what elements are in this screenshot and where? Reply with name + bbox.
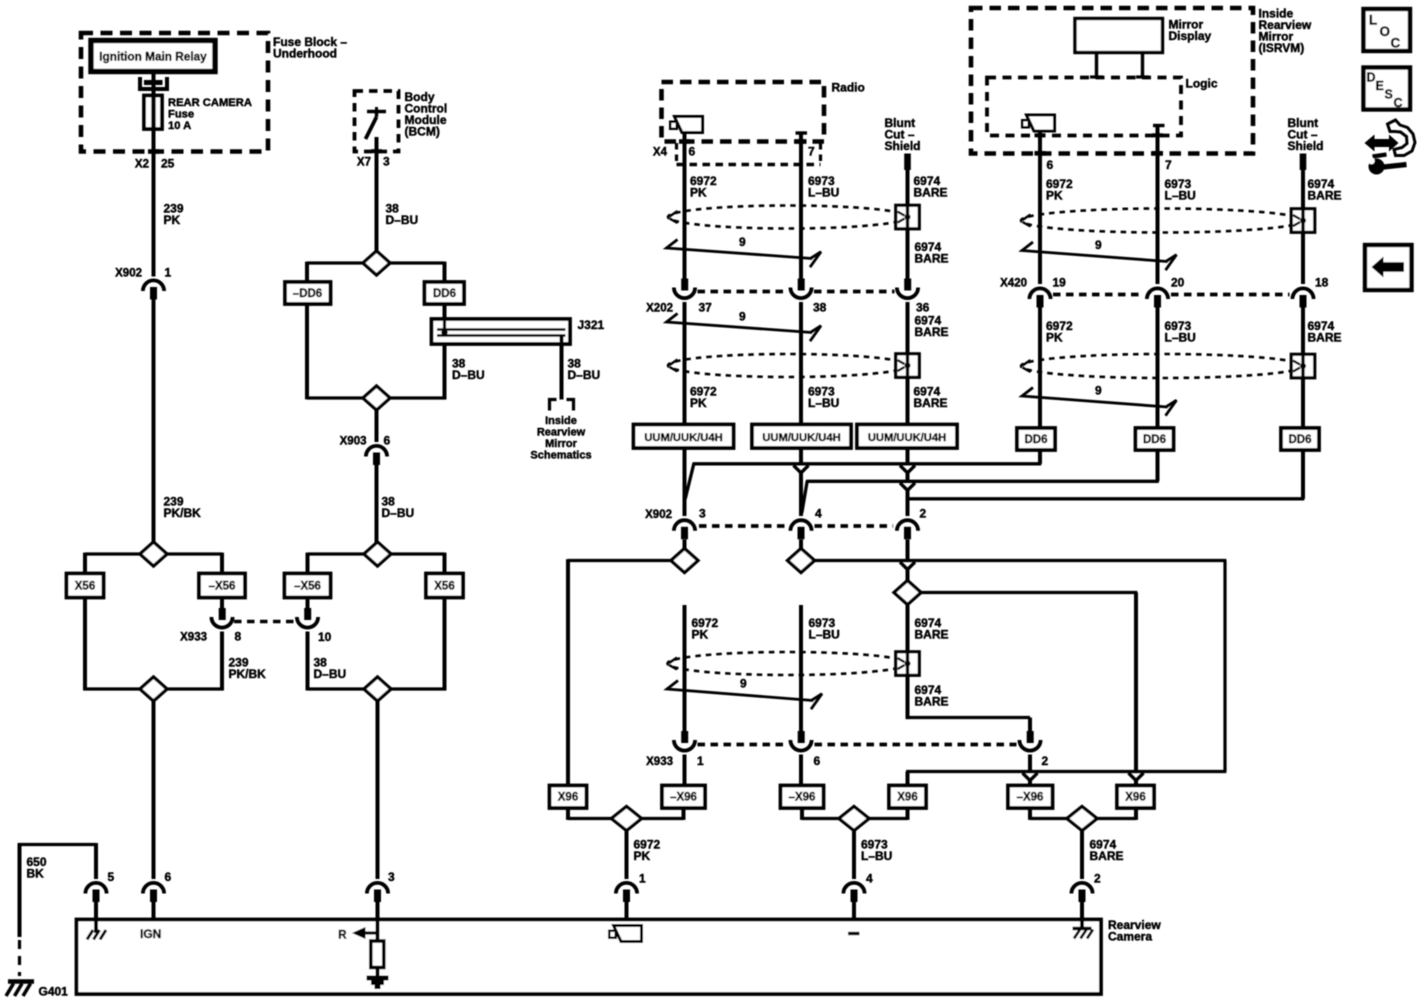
fuse block - underhood (dashed box) xyxy=(81,33,268,152)
relay K: Ignition Main Relay (bold box) xyxy=(91,41,215,72)
wire 6973 L-BU radio pin 7 xyxy=(799,135,803,280)
svg-text:C: C xyxy=(1394,96,1403,110)
dashed connector line X202 xyxy=(698,290,789,294)
connector X420 pin 18 xyxy=(1292,288,1313,299)
module Logic (dashed box) xyxy=(987,78,1181,136)
switch symbol inside BCM xyxy=(367,110,386,114)
connector X903 pin 6 xyxy=(366,446,387,457)
svg-text:(ISRVM): (ISRVM) xyxy=(1259,41,1305,55)
svg-text:PK: PK xyxy=(690,396,707,410)
connector box -X96 (PK) xyxy=(662,786,705,809)
camera display icon in radio xyxy=(675,117,703,133)
shield ellipse (middle) xyxy=(668,652,908,675)
wire into camera (video-) xyxy=(852,902,856,920)
shield ellipse (ISRVM upper) xyxy=(1021,209,1303,233)
svg-text:Rearview: Rearview xyxy=(537,427,586,439)
svg-text:L–BU: L–BU xyxy=(861,849,892,863)
camera display icon in logic xyxy=(1027,115,1055,131)
svg-text:D–BU: D–BU xyxy=(314,667,347,681)
wire relay to fuse xyxy=(152,72,156,97)
wire X902-3 to diamond xyxy=(683,540,687,549)
wire DD6-18 to 6974 BARE wire xyxy=(1301,450,1305,499)
svg-text:Radio: Radio xyxy=(832,81,865,95)
wire down to camera pin 3 xyxy=(376,702,380,880)
shield termination box (ISRVM lower) xyxy=(1291,354,1315,378)
icon box DESC xyxy=(1364,68,1411,110)
wire below X933-8 to lower diamond xyxy=(220,632,224,691)
svg-text:X902: X902 xyxy=(115,268,142,280)
wire L-BU diamond right arm (long route) xyxy=(815,559,1227,562)
blunt cut stub (ISRVM) xyxy=(1300,154,1307,171)
minus terminal inside camera xyxy=(848,932,860,935)
wire J321 left leg down xyxy=(443,344,447,400)
wire ISRVM pin 7 (6973 L-BU) xyxy=(1156,127,1160,284)
svg-text:6: 6 xyxy=(1047,158,1054,172)
tick at ISRVM exit pin 6 xyxy=(1035,151,1046,156)
svg-text:9: 9 xyxy=(1095,238,1102,252)
wire 6974 BARE shield drain (ISRVM) xyxy=(1301,170,1305,284)
svg-text:Logic: Logic xyxy=(1186,77,1218,91)
wire 38 D-BU down to diamond xyxy=(375,465,379,543)
shield termination box (ISRVM upper) xyxy=(1291,209,1315,233)
connector box X56 (right) xyxy=(426,574,463,598)
hop of 6974 wire over L-BU line xyxy=(900,483,915,490)
dashed connector line X902 xyxy=(699,524,788,528)
connector box DD6 xyxy=(425,282,465,304)
splice diamond (239 PK/BK split) xyxy=(140,542,167,566)
svg-text:7: 7 xyxy=(1165,158,1172,172)
ground G401 symbol xyxy=(8,979,34,984)
svg-text:2: 2 xyxy=(920,507,927,521)
splice diamond (38 D-BU merge 2) xyxy=(364,677,391,701)
svg-text:R: R xyxy=(338,930,347,942)
svg-text:1: 1 xyxy=(165,266,172,280)
ground hatch at pin 5 inside camera xyxy=(94,920,98,934)
svg-text:9: 9 xyxy=(740,677,747,691)
hop of 6974 wire over PK line xyxy=(900,465,915,472)
splice diamond 6972 PK merge xyxy=(612,807,642,831)
connector X902 pin 3 xyxy=(674,520,695,531)
minus terminal in logic xyxy=(1153,124,1165,127)
wires X96 pair to PK merge diamond xyxy=(566,808,570,820)
module: Inside Rearview Mirror ISRVM (dashed box) xyxy=(971,8,1253,154)
connector camera pin 5 xyxy=(85,883,106,894)
connector X420 pin 20 xyxy=(1147,288,1168,299)
dashed wire to G401 xyxy=(18,940,21,976)
svg-text:DD6: DD6 xyxy=(1024,434,1047,446)
off-page connector to mirror schematics xyxy=(550,400,574,411)
wire 6972 PK to UUM xyxy=(683,302,687,425)
svg-text:1: 1 xyxy=(697,754,704,768)
wire DD6 to splice pack J321 xyxy=(443,304,447,319)
splice diamond (38 D-BU merge) xyxy=(363,386,390,410)
wire through fuse xyxy=(151,96,155,130)
connector X933 pin 8 xyxy=(219,608,226,620)
wire ISRVM pin 6 (6972 PK) xyxy=(1038,131,1042,284)
svg-text:L–BU: L–BU xyxy=(1165,189,1196,203)
wire 6974 BARE to UUM xyxy=(906,302,910,425)
resistor inside camera xyxy=(371,941,384,968)
wire PK diamond left arm to X96 branch xyxy=(568,559,671,562)
svg-text:D: D xyxy=(1367,71,1376,85)
hop of BARE conn wire over long route xyxy=(1023,773,1038,780)
hop of BARE branch over long route xyxy=(1129,773,1144,780)
svg-text:Underhood: Underhood xyxy=(273,47,337,61)
svg-text:D–BU: D–BU xyxy=(382,506,415,520)
svg-text:18: 18 xyxy=(1315,276,1329,290)
connector box X56 (left) xyxy=(67,574,104,598)
svg-text:38: 38 xyxy=(813,301,827,315)
svg-text:PK: PK xyxy=(634,849,651,863)
wire into camera (video+) xyxy=(625,902,629,920)
svg-text:DD6: DD6 xyxy=(1288,434,1311,446)
wires X96 pair to L-BU merge diamond xyxy=(800,808,804,820)
wire into camera box (R) xyxy=(376,902,380,920)
connector box -DD6 xyxy=(285,282,331,304)
shield termination box (middle) xyxy=(896,652,920,676)
svg-text:–X56: –X56 xyxy=(209,581,236,593)
wire ground branch to camera pin 5 xyxy=(94,843,98,879)
connector X202 pin 37 xyxy=(681,279,688,291)
twisted pair symbol 9 (radio upper) xyxy=(667,240,813,259)
svg-text:BARE: BARE xyxy=(915,628,949,642)
svg-text:X7: X7 xyxy=(357,157,371,169)
svg-text:PK/BK: PK/BK xyxy=(229,667,267,681)
svg-text:9: 9 xyxy=(739,310,746,324)
svg-text:6: 6 xyxy=(165,870,172,884)
svg-text:X56: X56 xyxy=(75,581,95,593)
svg-text:BARE: BARE xyxy=(1308,331,1342,345)
splice pack J321 xyxy=(432,319,571,344)
connector X202 pin 38 xyxy=(798,279,805,291)
shield ground symbol inside camera xyxy=(1080,920,1084,929)
svg-text:X420: X420 xyxy=(1000,278,1027,290)
connector X902 pin 2 xyxy=(897,520,918,531)
twisted pair symbol 9 (middle) xyxy=(667,681,813,701)
svg-text:X202: X202 xyxy=(646,303,673,315)
svg-text:9: 9 xyxy=(739,235,746,249)
svg-text:–X96: –X96 xyxy=(670,792,697,804)
wire -X56 to X933-10 xyxy=(306,598,310,609)
component Mirror Display box xyxy=(1075,19,1163,53)
connector camera pin 3 xyxy=(367,883,388,894)
wire down to camera pin 6 xyxy=(152,702,156,880)
wire into camera box (IGN) xyxy=(152,902,156,920)
connector camera pin 6 xyxy=(143,883,164,894)
svg-text:DD6: DD6 xyxy=(1143,434,1166,446)
wire UUM 38 down to X902 pin 4 (hop at PK line) xyxy=(799,448,803,464)
svg-text:6: 6 xyxy=(814,754,821,768)
fuse holder clip xyxy=(140,77,167,89)
wire J321 leg to merge diamond xyxy=(391,396,447,399)
svg-text:X902: X902 xyxy=(645,509,672,521)
svg-text:2: 2 xyxy=(1042,754,1049,768)
connector X933 pin 2 xyxy=(1027,731,1034,743)
wire X902-2 down (hop at L-BU arm) xyxy=(906,540,910,561)
splice diamond 6973 L-BU merge xyxy=(839,807,869,831)
twisted pair symbol 9 (ISRVM upper) xyxy=(1022,242,1168,262)
connector X202 pin 36 xyxy=(904,279,911,291)
connector camera pin 2 xyxy=(1071,883,1092,894)
wire DD6-19 to X902-3 (6972 PK link) xyxy=(1038,450,1042,464)
tick at ISRVM exit pin 7 xyxy=(1152,151,1163,156)
svg-text:37: 37 xyxy=(699,301,713,315)
svg-text:DD6: DD6 xyxy=(433,288,456,300)
svg-text:BARE: BARE xyxy=(915,325,949,339)
icon box back arrow xyxy=(1365,245,1412,290)
svg-text:Ignition Main Relay: Ignition Main Relay xyxy=(99,50,207,64)
blunt cut stub (radio) xyxy=(904,154,911,171)
wire X56 down to lower diamond xyxy=(83,598,87,691)
wire X56 down to lower diamond xyxy=(443,598,447,691)
svg-text:X56: X56 xyxy=(434,581,454,593)
wire UUM 36 down to X902 pin 2 (hops) xyxy=(906,448,910,464)
splice diamond 6974 BARE merge xyxy=(1067,807,1097,831)
connector camera pin 4 xyxy=(843,883,864,894)
svg-text:9: 9 xyxy=(1095,384,1102,398)
svg-text:3: 3 xyxy=(388,870,395,884)
svg-text:L–BU: L–BU xyxy=(809,628,840,642)
splice diamond 6974 BARE xyxy=(894,581,921,605)
svg-text:Inside: Inside xyxy=(545,415,577,427)
connector X420 pin 19 xyxy=(1029,288,1050,299)
module: Body Control Module BCM (dashed box) xyxy=(355,91,399,152)
svg-text:L: L xyxy=(1369,13,1377,28)
tick at fuse block exit xyxy=(148,149,159,154)
wire diamond left arm to X56 branch xyxy=(85,552,140,555)
svg-text:BARE: BARE xyxy=(915,695,949,709)
svg-text:–X56: –X56 xyxy=(294,581,321,593)
svg-text:PK: PK xyxy=(164,213,181,227)
wire -DD6 down to merge diamond xyxy=(305,304,309,399)
splice diamond 6973 L-BU xyxy=(788,549,815,573)
wire J321 right leg down xyxy=(560,336,564,400)
svg-text:Display: Display xyxy=(1169,29,1212,43)
wire 6972 PK to X933 pin 1 xyxy=(683,605,687,731)
wire -X56 to connector X933-8 xyxy=(220,598,224,609)
connector box X96 (PK branch) xyxy=(550,786,587,809)
svg-text:BARE: BARE xyxy=(1090,849,1124,863)
wire fuse to X2 pin 25 xyxy=(152,129,156,277)
wire 650 BK horizontal xyxy=(18,843,96,846)
svg-text:S: S xyxy=(1385,88,1393,102)
wire diamond right arm to X56 xyxy=(391,552,445,555)
svg-text:D–BU: D–BU xyxy=(568,368,601,382)
svg-text:8: 8 xyxy=(235,630,242,644)
svg-text:X4: X4 xyxy=(653,147,668,159)
svg-text:D–BU: D–BU xyxy=(386,213,419,227)
wire L-BU to camera pin 4 xyxy=(852,831,856,880)
splice diamond (38 D-BU split 2) xyxy=(364,542,391,566)
option box UUM/UUK/U4H pin 38 xyxy=(752,425,851,449)
wire diamond left arm to -X56 xyxy=(308,552,365,555)
wire diamond right arm to DD6 xyxy=(390,261,445,264)
wire below X933-10 to lower diamond xyxy=(306,632,310,691)
wire X933-1 to -X96 xyxy=(683,755,687,786)
wire 6973 L-BU to X933 pin 6 xyxy=(799,605,803,731)
connector box -X56 (left) xyxy=(199,574,245,598)
svg-text:Shield: Shield xyxy=(1288,139,1324,153)
connector box X96 (BARE branch) xyxy=(1117,786,1154,809)
svg-text:X903: X903 xyxy=(340,436,367,448)
tick at radio exit pin 6 xyxy=(679,139,690,144)
svg-text:BARE: BARE xyxy=(914,396,948,410)
wire PK to camera pin 1 xyxy=(625,831,629,880)
svg-text:IGN: IGN xyxy=(140,927,161,941)
splice diamond 6972 PK xyxy=(671,549,698,573)
wire X933-6 to -X96 xyxy=(799,755,803,786)
svg-text:BARE: BARE xyxy=(1308,189,1342,203)
svg-text:J321: J321 xyxy=(578,318,605,332)
icon box LOC xyxy=(1364,9,1411,51)
svg-text:G401: G401 xyxy=(39,985,69,998)
svg-text:1: 1 xyxy=(639,872,646,886)
svg-text:BK: BK xyxy=(27,867,45,881)
svg-text:X96: X96 xyxy=(558,792,578,804)
internal ground symbol (stepped) xyxy=(367,976,389,990)
svg-text:L–BU: L–BU xyxy=(1165,331,1196,345)
connector X933 pin 10 xyxy=(304,608,311,620)
svg-text:X96: X96 xyxy=(897,792,917,804)
connector X4 dashed outline xyxy=(675,143,678,165)
svg-text:PK: PK xyxy=(690,186,707,200)
svg-text:PK/BK: PK/BK xyxy=(164,506,202,520)
wire to connector X903 pin 6 xyxy=(375,411,379,443)
shield termination box (radio lower) xyxy=(896,354,920,378)
svg-text:UUM/UUK/U4H: UUM/UUK/U4H xyxy=(868,432,946,444)
wire 6974 BARE from diamond to shield box xyxy=(906,605,910,652)
shield termination box (radio upper) xyxy=(896,205,920,229)
svg-text:10 A: 10 A xyxy=(168,120,191,132)
component box Rearview Camera xyxy=(77,920,1102,995)
svg-text:(BCM): (BCM) xyxy=(405,125,440,139)
hop of 6974 wire over L-BU arm xyxy=(900,562,915,569)
tick at radio exit pin 7 xyxy=(796,139,807,144)
svg-text:Mirror: Mirror xyxy=(545,438,578,450)
svg-text:–DD6: –DD6 xyxy=(293,288,322,300)
wire 6974 BARE to DD6 xyxy=(1301,308,1305,429)
svg-text:–X96: –X96 xyxy=(1017,792,1044,804)
svg-text:36: 36 xyxy=(916,301,930,315)
svg-text:20: 20 xyxy=(1171,276,1185,290)
svg-text:D–BU: D–BU xyxy=(452,368,485,382)
wire UUM 37 down to X902 pin 3 xyxy=(683,448,687,516)
module: Radio (dashed box) xyxy=(662,82,825,142)
wire into camera (shield) xyxy=(1080,902,1084,920)
wires X56 pair to BARE merge diamond xyxy=(1028,808,1032,820)
wire 6973 L-BU to DD6 xyxy=(1156,308,1160,429)
svg-text:UUM/UUK/U4H: UUM/UUK/U4H xyxy=(644,432,722,444)
svg-text:L–BU: L–BU xyxy=(808,186,839,200)
tick at logic exit pin 6 xyxy=(1035,133,1046,137)
connector box X96 (L-BU branch) xyxy=(889,786,926,809)
option box DD6 pin 18 xyxy=(1281,428,1319,450)
svg-text:PK: PK xyxy=(1046,331,1063,345)
wire 6974 BARE to connector 2 xyxy=(906,675,910,719)
fuse F: REAR CAMERA Fuse 10A body xyxy=(144,96,162,130)
wire diamond left arm to -DD6 xyxy=(307,261,363,264)
wire diamond right arm to -X56 branch xyxy=(167,552,222,555)
wire 6973 L-BU to UUM xyxy=(799,302,803,425)
connector X933 pin 1 xyxy=(681,731,688,743)
wire BARE diamond right arm xyxy=(921,591,1137,594)
svg-text:PK: PK xyxy=(692,628,709,642)
option box DD6 pin 20 xyxy=(1136,428,1174,450)
svg-text:BARE: BARE xyxy=(914,186,948,200)
svg-text:REAR CAMERA: REAR CAMERA xyxy=(168,97,252,109)
camera display icon inside camera xyxy=(614,926,642,942)
wire 239 PK/BK down to splice diamond xyxy=(152,300,156,543)
svg-text:UUM/UUK/U4H: UUM/UUK/U4H xyxy=(762,432,840,444)
svg-text:Shield: Shield xyxy=(885,139,921,153)
wire 6972 PK to DD6 xyxy=(1038,308,1042,429)
option box DD6 pin 19 xyxy=(1017,428,1055,450)
wire 6974 BARE shield drain (radio) xyxy=(906,170,910,279)
connector X902 pin 4 xyxy=(790,520,811,531)
svg-text:4: 4 xyxy=(815,507,822,521)
option box UUM/UUK/U4H pin 36 xyxy=(857,425,957,449)
dashed connector line X933 row (left) xyxy=(234,620,296,623)
dashed connector line X420 xyxy=(1053,293,1144,297)
shield ellipse (ISRVM lower) xyxy=(1021,354,1303,378)
wire resistor to internal ground xyxy=(376,968,380,977)
shield ellipse (radio upper) xyxy=(668,206,908,229)
splice diamond (239 PK/BK merge) xyxy=(140,677,167,701)
connector box -X96 (BARE) xyxy=(1008,786,1053,809)
svg-text:Schematics: Schematics xyxy=(530,450,591,462)
wire BARE to camera pin 2 xyxy=(1080,831,1084,880)
connector camera pin 1 xyxy=(616,883,637,894)
svg-text:X2: X2 xyxy=(135,159,149,171)
connector box -X56 (right) xyxy=(285,574,331,598)
svg-text:10: 10 xyxy=(318,630,332,644)
connector X933 pin 6 xyxy=(798,731,805,743)
connector X902 pin 1 xyxy=(143,280,164,291)
twisted pair symbol 9 (ISRVM lower) xyxy=(1022,388,1168,408)
wire BCM X7 pin 3 down xyxy=(375,137,379,251)
wire 6972 PK radio pin 6 xyxy=(683,133,687,280)
icon double arrow with tool xyxy=(1365,135,1399,152)
wire X933-2 to -X56 (hop at long route) xyxy=(1028,755,1032,772)
option box UUM/UUK/U4H pin 37 xyxy=(634,425,734,449)
svg-text:L–BU: L–BU xyxy=(808,396,839,410)
svg-text:19: 19 xyxy=(1053,276,1067,290)
minus terminal in radio xyxy=(796,131,808,134)
svg-text:6: 6 xyxy=(384,434,391,448)
svg-text:3: 3 xyxy=(383,155,390,169)
svg-text:7: 7 xyxy=(808,145,815,159)
svg-text:–X96: –X96 xyxy=(789,792,816,804)
splice diamond (38 D-BU split) xyxy=(363,251,390,275)
tick at BCM exit xyxy=(371,149,382,153)
wire X902-4 to diamond xyxy=(799,540,803,549)
svg-text:6: 6 xyxy=(689,145,696,159)
svg-text:E: E xyxy=(1376,79,1384,93)
svg-text:X96: X96 xyxy=(1125,792,1145,804)
tick at logic exit pin 7 xyxy=(1152,133,1163,137)
svg-text:X933: X933 xyxy=(180,632,207,644)
svg-text:O: O xyxy=(1380,24,1391,39)
svg-text:5: 5 xyxy=(108,870,115,884)
svg-text:X933: X933 xyxy=(646,756,673,768)
svg-text:4: 4 xyxy=(866,872,873,886)
svg-text:Fuse: Fuse xyxy=(168,109,194,121)
svg-text:25: 25 xyxy=(161,157,175,171)
R input arrow inside camera xyxy=(376,920,380,942)
mirror display legs xyxy=(1095,53,1098,79)
dashed connector line X933 (middle) xyxy=(698,743,788,747)
svg-text:3: 3 xyxy=(699,507,706,521)
